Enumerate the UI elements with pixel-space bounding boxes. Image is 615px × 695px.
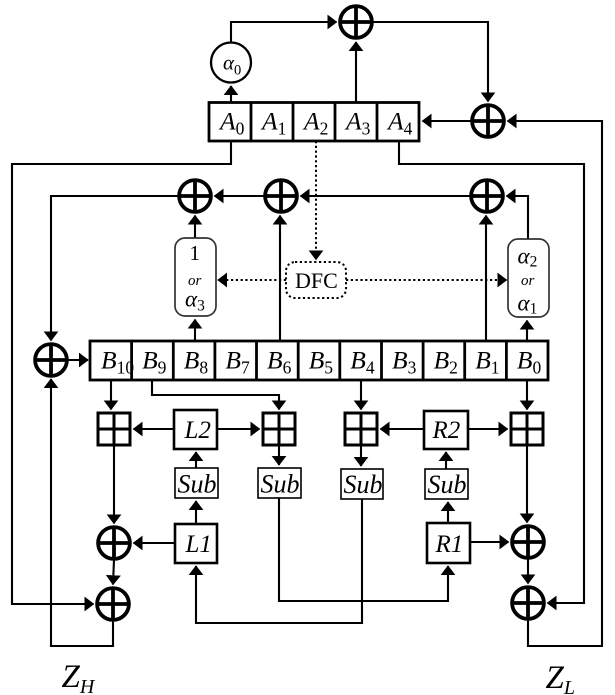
wire B4 to M3 <box>360 380 362 410</box>
svg-text:Sub: Sub <box>428 470 467 499</box>
modular adder M2 <box>263 413 295 445</box>
wire M3 to Sub3 <box>360 445 362 466</box>
wire B0 to M4 <box>526 380 528 410</box>
xor X2 top-right <box>471 104 506 139</box>
sbox Sub1 <box>175 468 218 499</box>
dotted wire A2 to DFC <box>315 141 317 260</box>
svg-text:Sub: Sub <box>178 470 217 499</box>
wire XBR1 to XBR2 <box>527 559 529 584</box>
wire X2 to A4 <box>423 120 472 122</box>
wire B1 to XM3 <box>485 216 487 342</box>
xor XBR1 <box>511 525 546 560</box>
wire box1a3 to XM1 <box>194 216 196 239</box>
dotted wire DFC to box1a3 <box>218 279 286 281</box>
register A <box>209 103 419 142</box>
block L2 <box>174 410 217 449</box>
wire Sub3 to L1 <box>196 499 362 623</box>
svg-text:or: or <box>521 273 535 289</box>
svg-text:L1: L1 <box>185 531 212 558</box>
wire R1 to Sub4 <box>447 502 449 523</box>
wire tap A0 down-left <box>12 141 231 604</box>
wire X1 to X2 <box>373 22 489 102</box>
xor XM2 <box>264 179 299 214</box>
wire R2 to M3 <box>381 428 425 430</box>
svg-text:Sub: Sub <box>344 470 383 499</box>
block R1 <box>427 523 470 563</box>
modular adder M1 <box>98 413 130 445</box>
svg-text:ZH: ZH <box>62 659 96 695</box>
xor XBR2 <box>511 586 546 621</box>
sbox Sub2 <box>258 468 301 499</box>
xor XML feedback-input <box>34 343 69 378</box>
wire B6 to XM2 <box>279 216 281 342</box>
sbox Sub3 <box>341 469 383 499</box>
wire alpha0 to X1 <box>231 22 337 42</box>
block DFC <box>286 262 346 298</box>
wire XML to B10 <box>67 359 88 361</box>
svg-text:DFC: DFC <box>295 268 338 293</box>
xor XBL1 <box>97 526 132 561</box>
wire Sub2 to R1 <box>279 498 448 601</box>
wire tap A4 down-right <box>399 141 584 603</box>
wire XBL1 to XBL2 <box>113 560 114 585</box>
wire XBR2 to X2 feedback ZL <box>508 121 603 646</box>
block L1 <box>175 524 217 563</box>
wire XM2 to XM1 <box>215 195 265 197</box>
wire B9 to M2 <box>152 380 279 410</box>
svg-text:Sub: Sub <box>261 470 300 499</box>
modular adder M3 <box>345 413 377 445</box>
wire XM3 to XM2 <box>301 195 471 197</box>
svg-text:ZL: ZL <box>546 660 575 695</box>
wire M2 to Sub2 <box>278 445 280 465</box>
selector box alpha2-or-alpha1 <box>508 239 549 318</box>
wire B8 to box1a3 <box>194 320 196 342</box>
register B <box>90 341 548 380</box>
wire L1 to Sub1 <box>195 501 197 524</box>
block R2 <box>424 411 468 449</box>
svg-text:R1: R1 <box>435 531 464 558</box>
xor XM1 <box>178 179 213 214</box>
modular adder M4 <box>511 413 543 445</box>
wire Sub1 to L2 <box>195 452 197 468</box>
wire XM1 to XML <box>51 196 179 341</box>
sbox Sub4 <box>425 469 468 499</box>
xor XBL2 <box>96 587 131 622</box>
multiplier alpha0 <box>211 43 251 83</box>
wire A0 to alpha0 <box>230 86 232 103</box>
svg-text:L2: L2 <box>184 417 211 444</box>
wire alpha21-box to XM3 <box>507 196 529 239</box>
xor XM3 <box>470 179 505 214</box>
wire R2 to M4 <box>468 428 508 430</box>
wire L2 to M2 <box>217 428 260 430</box>
svg-text:1: 1 <box>190 241 201 265</box>
wire B10 to M1 <box>110 380 112 410</box>
wire L2 to M1 <box>134 428 175 430</box>
wire A3 to X1 <box>355 42 357 103</box>
dotted wire DFC to alpha21-box <box>346 279 507 281</box>
wire Sub4 to R2 <box>445 452 447 469</box>
wire M4 to XBR1 <box>526 445 528 523</box>
wire B0 to alpha21-box <box>526 321 528 342</box>
wire XBL2 to XML feedback ZH <box>51 379 113 646</box>
wire M1 to XBL1 <box>113 445 115 524</box>
xor X1 top <box>339 5 374 40</box>
svg-text:R2: R2 <box>432 417 461 444</box>
selector box 1-or-alpha3 <box>175 238 216 316</box>
wire L1 to XBL1 <box>134 542 176 544</box>
wire R1 to XBR1 <box>470 541 509 543</box>
